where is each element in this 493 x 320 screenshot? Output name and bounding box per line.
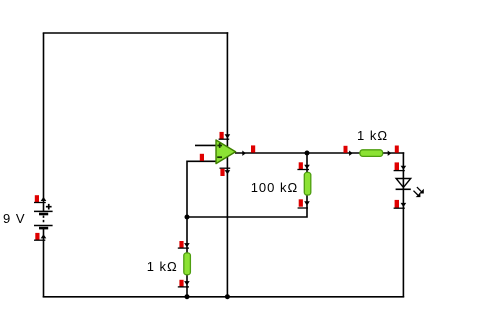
current arrow (down): 1k feedback-leg top pin: [184, 243, 190, 247]
wire: right drop from top rail to op-amp V+ pin: [226, 32, 228, 152]
pin tick: LED bottom: [394, 207, 405, 209]
pin tick: 1k feedback-leg top: [178, 247, 189, 249]
battery B1: dashed cell separator: [43, 216, 45, 224]
pin tick: 100k top: [297, 169, 309, 171]
wire: top horizontal rail: [43, 32, 229, 34]
current arrow (down): 1k feedback-leg bottom pin: [184, 281, 190, 285]
voltage bar: battery top pin: [35, 195, 39, 202]
voltage bar: 1k feedback-leg bottom pin: [179, 280, 183, 287]
voltage bar: battery bottom pin: [35, 233, 39, 240]
voltage bar: 1k right pin (horizontal resistor): [395, 146, 399, 153]
pin tick: LED top: [394, 170, 405, 172]
current arrow (up): battery top pin: [41, 197, 47, 201]
pin tick: 1k feedback-leg bottom: [178, 286, 189, 288]
svg-text:1 kΩ: 1 kΩ: [147, 259, 178, 274]
voltage bar: op-amp inverting input pin: [200, 154, 204, 161]
voltage bar: 100k top pin: [299, 162, 303, 169]
wire: bottom horizontal rail: [43, 296, 405, 298]
current arrow (down): 100k bottom pin: [304, 201, 310, 205]
resistor R2 100k body (vertical): [304, 172, 311, 195]
wire: battery bottom lead down left side: [43, 228, 45, 297]
current arrow (right): into 1k horizontal: [349, 151, 353, 156]
wire: right vertical through LED down to bottom rail: [402, 152, 404, 297]
wire: 1k feedback leg vertical: [186, 217, 188, 297]
voltage bar: op-amp V- pin: [220, 169, 224, 176]
op-amp U1: minus input marking: [217, 156, 222, 158]
voltage bar: LED top pin: [395, 162, 399, 170]
current arrow (up): battery bottom pin: [41, 234, 47, 238]
current arrow (down): LED bottom pin: [401, 203, 407, 207]
svg-text:100 kΩ: 100 kΩ: [251, 180, 299, 195]
current arrow (down): 100k top pin: [304, 165, 310, 169]
voltage bar: 100k bottom pin: [299, 199, 303, 206]
voltage bar: 1k feedback-leg top pin: [179, 241, 183, 248]
op-amp U1: plus input marking: [217, 143, 222, 148]
resistor R1 1k body (horizontal, to LED): [360, 150, 383, 157]
wire: op-amp non-inverting input stub: [195, 144, 216, 146]
junction node: op-amp V- at bottom rail: [225, 294, 230, 299]
pin tick: battery top: [34, 202, 46, 204]
voltage bar: op-amp output pin: [251, 145, 255, 152]
junction node: 1k leg at bottom rail: [185, 294, 190, 299]
LED D1: cathode bar: [396, 188, 411, 190]
battery B1: bottom short thick plate: [39, 227, 48, 230]
junction node: output / 100k top: [305, 151, 310, 156]
wire: feedback horizontal (node A to below 100k): [187, 153, 307, 218]
pin tick: op-amp V+: [219, 138, 230, 140]
voltage bar: 1k left pin (horizontal resistor): [344, 146, 348, 153]
LED D1: light emission arrow 2: [414, 191, 421, 197]
pin tick: op-amp V-: [220, 167, 231, 169]
current arrow (down): LED top pin: [401, 166, 407, 170]
battery B1: top short thick plate: [39, 213, 48, 216]
current arrow (right): out of 1k horizontal: [388, 151, 392, 156]
op-amp U1 triangle: [216, 140, 236, 164]
battery B1: top long plate: [34, 210, 53, 212]
pin tick: 100k bottom: [298, 207, 308, 209]
current arrow (down): op-amp V- pin: [225, 170, 231, 174]
wire: left vertical (battery top to top-left corner): [43, 33, 45, 211]
junction node A: inverting feedback node: [185, 215, 190, 220]
current arrow (right): op-amp output: [242, 151, 246, 156]
wire: op-amp inverting input left then down to feedback node: [187, 161, 216, 217]
battery B1 9V: plus sign: [46, 204, 52, 210]
svg-text:1 kΩ: 1 kΩ: [357, 128, 388, 143]
wire: op-amp output to right corner: [235, 152, 404, 154]
pin tick: battery bottom: [34, 239, 45, 241]
svg-text:9 V: 9 V: [3, 211, 26, 226]
battery B1: bottom long plate: [34, 225, 53, 227]
LED D1: light emission arrow 1: [417, 187, 424, 193]
wire: op-amp V- pin down to bottom rail: [226, 152, 228, 297]
voltage bar: LED bottom pin: [395, 200, 399, 208]
current arrow (down): op-amp V+ pin: [225, 134, 231, 138]
resistor R3 1k body (vertical, feedback leg): [184, 253, 191, 275]
voltage bar: op-amp V+ pin: [220, 132, 224, 139]
LED D1: anode triangle: [396, 179, 411, 188]
